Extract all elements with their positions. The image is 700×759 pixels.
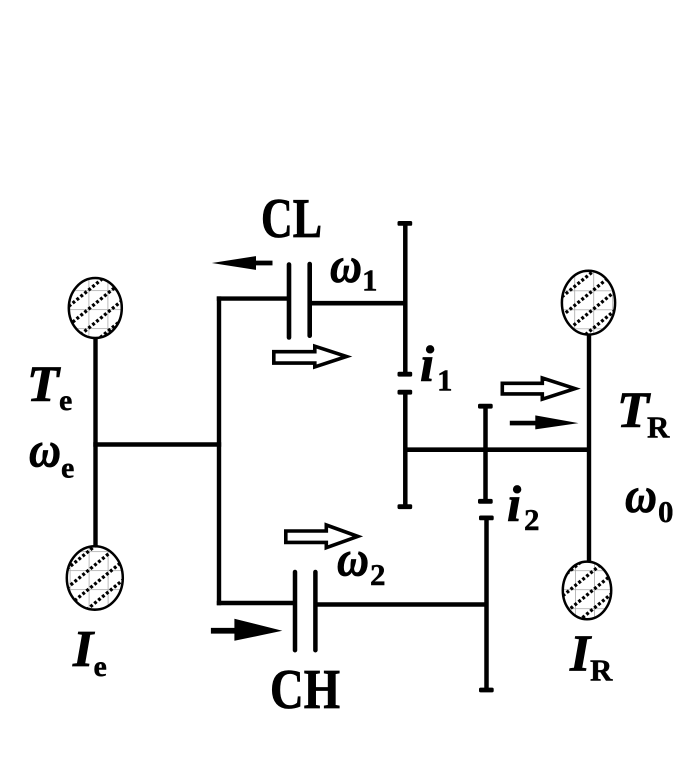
svg-text:2: 2 (524, 502, 540, 537)
arrow: solid right arrow pointing to output shaft (510, 415, 579, 429)
wire: branch vertical between CL and CH (217, 296, 221, 605)
wire: output shaft vertical (587, 305, 591, 590)
wire: right main horizontal (i1 to output shaft) (404, 447, 592, 452)
wire: CL output horizontal to gear i1 (310, 301, 408, 306)
wire: left main horizontal (Te/we node to branch) (93, 442, 221, 447)
gear i2 lower shaft bottom cap (479, 688, 494, 693)
svg-text:T: T (617, 383, 651, 439)
svg-text:I: I (72, 621, 95, 678)
svg-text:ω: ω (330, 238, 362, 294)
arrow: hollow arrow below clutch CL (274, 346, 347, 367)
gear i1 lower shaft (403, 392, 408, 507)
gear i1 lower shaft bottom cap (398, 504, 413, 509)
svg-text:e: e (94, 650, 107, 683)
svg-text:ω: ω (337, 532, 369, 588)
wire: CH output horizontal to gear i2 (316, 602, 488, 606)
inertia ellipse top-right (558, 231, 619, 376)
wire: CH input horizontal (217, 601, 295, 605)
svg-text:2: 2 (370, 557, 386, 592)
svg-text:I: I (569, 626, 592, 683)
svg-text:i: i (420, 337, 434, 393)
svg-text:e: e (59, 384, 72, 417)
inertia ellipse top-left (engine) (65, 241, 126, 386)
clutch CH left plate (293, 572, 298, 650)
gear i1 upper shaft bottom cap (398, 372, 413, 377)
gear i2 lower shaft top cap (479, 516, 494, 521)
clutch CL right plate (307, 264, 312, 336)
wire: CL input horizontal (217, 296, 289, 300)
gear i2 upper shaft bottom cap (478, 499, 493, 504)
inertia ellipse bottom-left (Ie) (63, 501, 127, 649)
arrow: solid left arrow above clutch CL (212, 256, 273, 270)
clutch CH right plate (313, 572, 318, 650)
svg-text:e: e (61, 452, 74, 485)
svg-text:1: 1 (437, 363, 453, 398)
wire: engine shaft vertical (93, 310, 97, 578)
arrow: hollow arrow above clutch CH (286, 525, 358, 548)
gear i1 lower shaft top cap (398, 390, 413, 395)
svg-text:CL: CL (261, 188, 322, 250)
svg-text:i: i (507, 477, 521, 533)
gear i1 upper shaft (403, 223, 408, 374)
svg-text:R: R (590, 653, 613, 688)
svg-text:0: 0 (658, 494, 674, 529)
svg-text:ω: ω (625, 468, 657, 524)
svg-text:ω: ω (29, 423, 61, 479)
inertia ellipse bottom-right (IR) (559, 515, 615, 656)
gear i2 lower shaft (484, 518, 489, 690)
arrow: solid right arrow above clutch CH wire (211, 619, 282, 641)
arrow: hollow arrow pointing to output shaft (502, 378, 575, 399)
clutch CL left plate (287, 265, 292, 338)
svg-text:R: R (647, 410, 670, 445)
svg-text:T: T (27, 357, 61, 413)
gear i2 upper shaft top cap (478, 404, 493, 409)
svg-text:CH: CH (270, 659, 340, 721)
svg-text:1: 1 (362, 263, 378, 298)
gear i1 upper shaft top cap (398, 221, 413, 226)
gear i2 upper shaft (483, 406, 488, 501)
